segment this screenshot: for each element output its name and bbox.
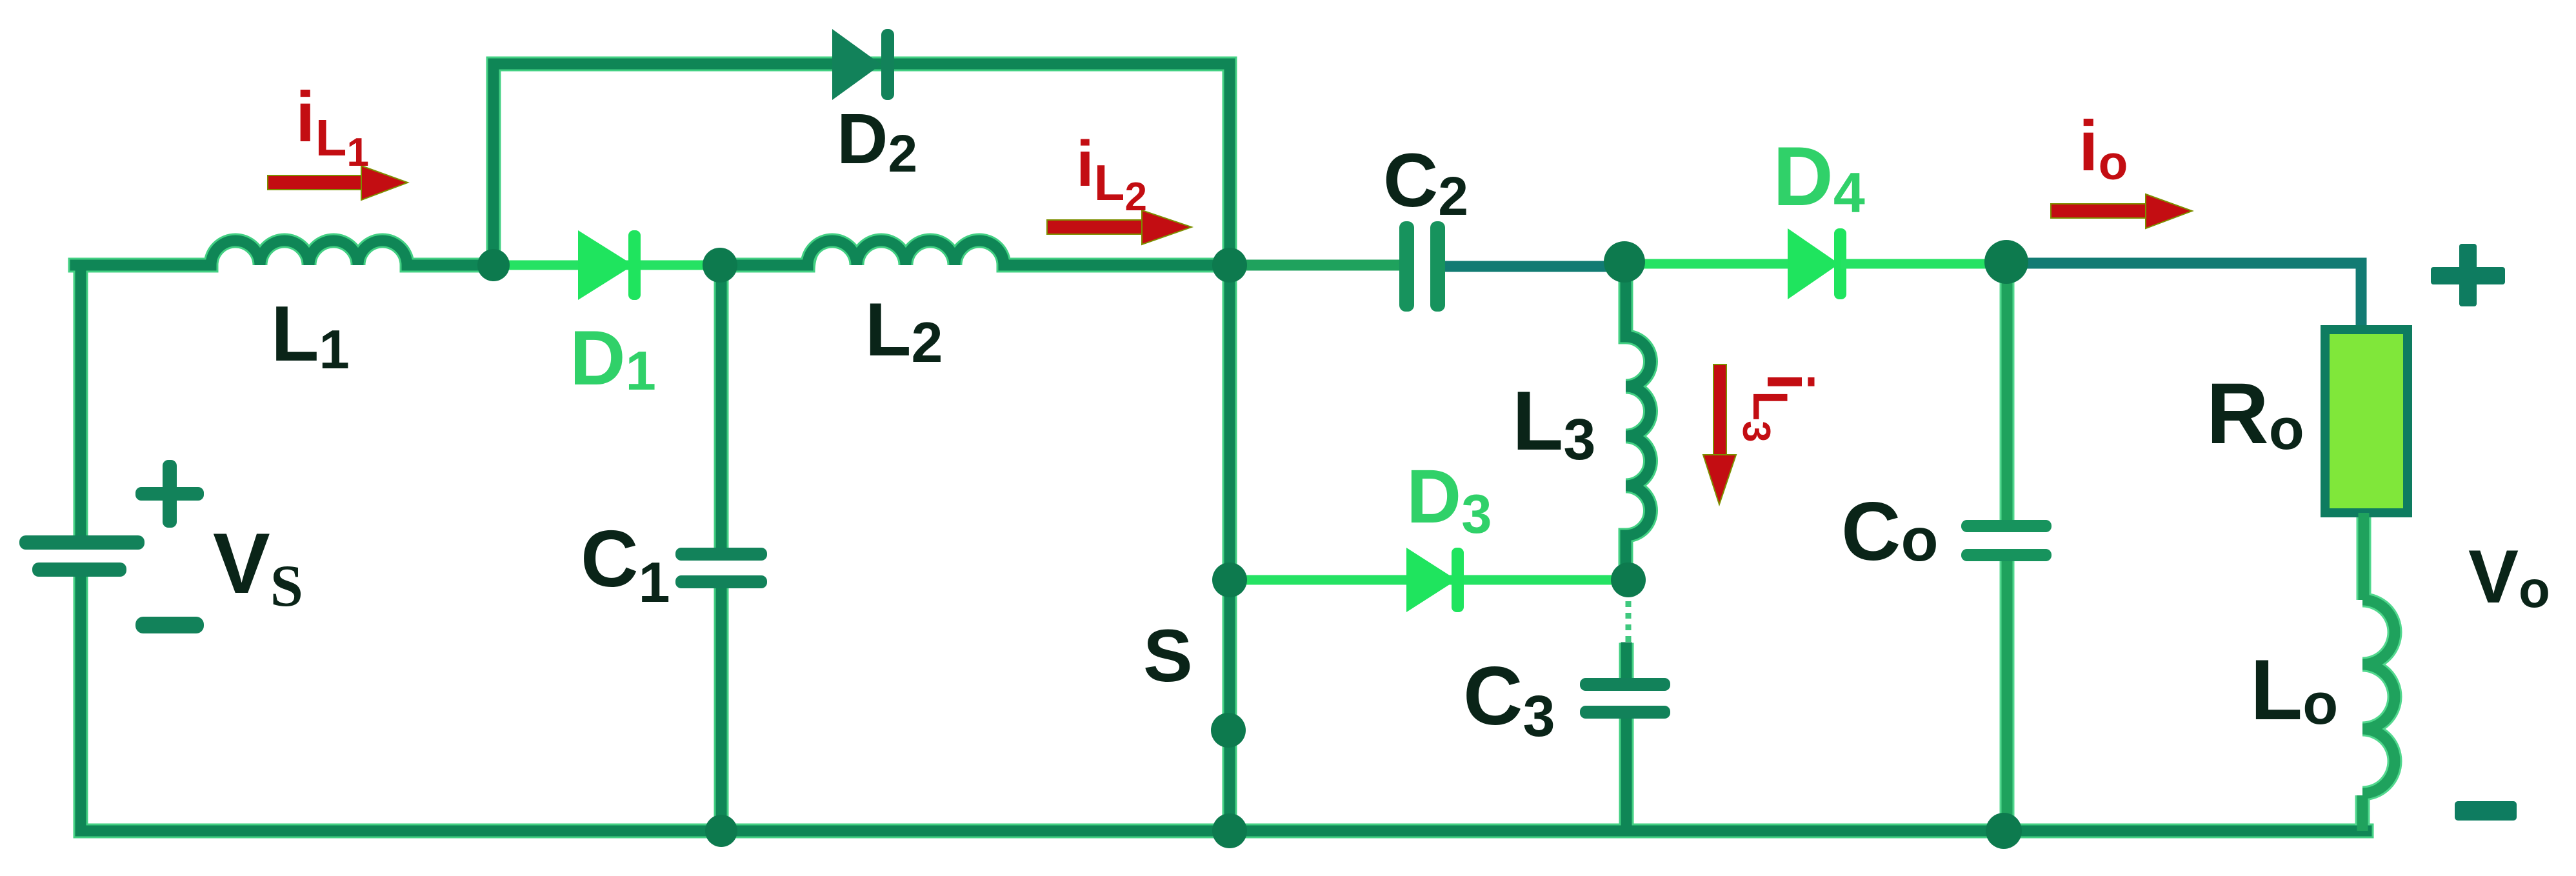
current arrow iL2 (1047, 210, 1192, 244)
svg-text:D3: D3 (1406, 454, 1492, 545)
node C2-L3 (1604, 241, 1645, 283)
capacitor C2 bar2 (1430, 221, 1445, 312)
wire top loop halo (494, 64, 1230, 265)
diode D2 (832, 29, 894, 100)
wire Ro Lo branch halo (2362, 513, 2364, 831)
node Co bottom (1986, 813, 2022, 849)
inductor Lo (2362, 600, 2395, 793)
svg-text:C3: C3 (1463, 650, 1555, 749)
svg-text:iL3: iL3 (1735, 373, 1826, 443)
node C1 bottom (705, 815, 737, 847)
diode D1 (578, 230, 641, 300)
wire left rail halo (74, 265, 88, 831)
node L2-S (1212, 248, 1247, 283)
current arrow iL1 (268, 166, 408, 200)
minus sign output (2455, 801, 2517, 821)
node D3-L3-C3 (1611, 562, 1646, 597)
svg-text:iL2: iL2 (1076, 128, 1147, 219)
diode D3 (1406, 548, 1464, 612)
node S bottom (1212, 813, 1247, 848)
wire L2 region halo (211, 258, 808, 273)
wire main rail left halo (75, 258, 211, 273)
resistor Ro (2325, 330, 2408, 513)
inductor L3 branch (1621, 277, 1632, 337)
capacitor C2 bar1 (1399, 221, 1414, 312)
wire L3 to node (1621, 535, 1632, 580)
svg-text:Vo: Vo (2468, 534, 2550, 619)
svg-text:Ro: Ro (2206, 366, 2304, 462)
battery VS bar2 (32, 562, 126, 577)
node S-D3 (1212, 562, 1247, 597)
wire node to D4 bright (1626, 259, 1788, 269)
wire bottom rail (81, 826, 2366, 837)
diode D4 (1788, 228, 1846, 299)
capacitor C3 bar1 (1580, 678, 1670, 691)
current arrow iL3 (1703, 364, 1736, 504)
svg-text:L2: L2 (865, 287, 943, 374)
wire L3 C3 branch halo (1626, 262, 1651, 831)
inductor L2 (808, 241, 1004, 265)
capacitor C1 bar1 (675, 548, 767, 561)
wire C3 branch (1621, 648, 1632, 831)
wire bottom rail halo (81, 824, 2366, 839)
wire top loop with D2 (494, 64, 1230, 265)
inductor L1 halo (211, 241, 407, 265)
svg-text:iL1: iL1 (295, 77, 369, 175)
wire node to L2 (719, 260, 808, 271)
wire D4 to node bright (1846, 259, 1993, 269)
svg-text:L3: L3 (1512, 373, 1595, 472)
svg-text:D2: D2 (837, 99, 917, 183)
svg-text:VS: VS (213, 516, 303, 619)
wire L1 to node (407, 260, 494, 271)
wire Co branch (2002, 262, 2013, 831)
inductor Lo halo (2362, 600, 2395, 793)
wire C1 branch (716, 282, 727, 831)
svg-text:S: S (1143, 615, 1193, 697)
battery VS bar1 (19, 535, 145, 550)
svg-text:L1: L1 (271, 290, 350, 381)
capacitor C3 bar2 (1580, 706, 1670, 719)
node D4-Co (1984, 240, 2028, 284)
wire L1 to node halo (407, 258, 494, 273)
svg-text:C2: C2 (1383, 138, 1468, 226)
svg-text:Co: Co (1841, 486, 1938, 578)
minus sign VS (135, 617, 204, 633)
capacitor C1 bar2 (675, 575, 767, 588)
node main-L1 (477, 249, 510, 281)
inductor L1 (211, 241, 407, 265)
current arrow io (2051, 194, 2192, 228)
wire S branch halo (1223, 265, 1237, 831)
svg-text:io: io (2079, 106, 2128, 190)
wire C2 to node teal (1445, 261, 1613, 272)
node D1-C1 (703, 248, 737, 283)
capacitor Co bar1 (1961, 520, 2052, 532)
wire C1 branch halo (714, 265, 729, 831)
diode D3 segment (1245, 575, 1613, 585)
wire dashed C3 artifact (1626, 590, 1632, 650)
wire S branch (1224, 282, 1235, 831)
capacitor Co bar2 (1961, 549, 2052, 561)
svg-text:D4: D4 (1773, 129, 1865, 224)
wire L2 to S node (1004, 260, 1230, 271)
wire node to Ro corner teal (2019, 263, 2361, 330)
wire Lo to bottom rail (2357, 795, 2368, 831)
wire Co branch halo (2000, 262, 2015, 831)
plus sign VS (135, 460, 204, 528)
svg-text:Lo: Lo (2250, 642, 2338, 738)
plus sign output (2431, 244, 2505, 306)
svg-text:C1: C1 (581, 515, 670, 614)
wire main rail left (75, 260, 211, 271)
svg-text:D1: D1 (570, 315, 656, 402)
diode D1 segment (494, 261, 719, 270)
wire Ro to Lo (2359, 513, 2370, 600)
node S mid (1211, 713, 1246, 748)
wire S node to C2 (1245, 260, 1399, 271)
wire left rail (75, 265, 86, 831)
inductor L3 (1626, 337, 1651, 535)
